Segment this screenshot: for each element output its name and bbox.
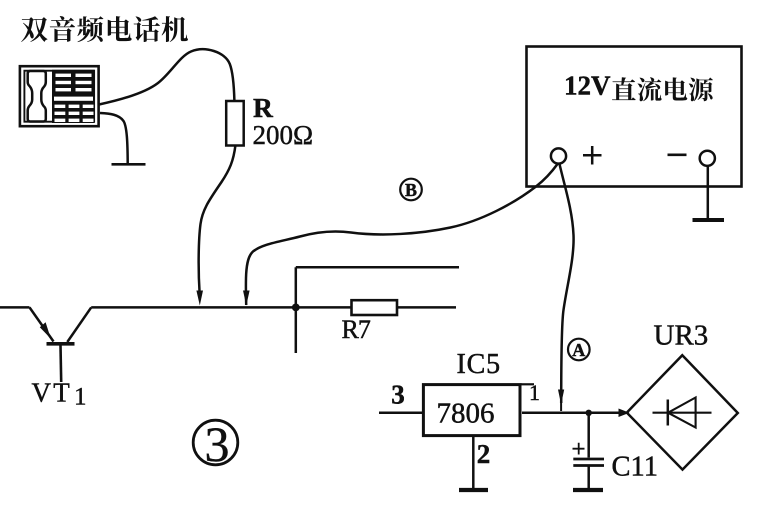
ground (minus terminal) — [693, 218, 725, 222]
IC5 box (7806) — [423, 385, 520, 436]
12V DC power supply box — [527, 47, 742, 187]
transistor VT1 right diagonal — [67, 307, 91, 342]
wire: phone to ground — [100, 113, 128, 164]
junction node at pin1 line — [586, 410, 592, 416]
svg-text:A: A — [572, 340, 585, 360]
svg-text:VT: VT — [32, 378, 72, 408]
svg-text:7806: 7806 — [437, 397, 495, 429]
ground (C11) — [573, 488, 603, 492]
wire: main horizontal line — [91, 306, 456, 309]
arrowhead (wire A) — [558, 390, 564, 405]
minus sign — [668, 154, 687, 157]
wire: pin 2 lead down — [472, 437, 475, 489]
junction node on main line — [292, 304, 300, 312]
ground (telephone) — [112, 163, 146, 166]
label: 直流电源 — [612, 77, 713, 101]
ground (IC5 pin2) — [459, 488, 488, 492]
telephone handset — [28, 71, 46, 122]
wire: upper horizontal line — [296, 266, 459, 269]
capacitor C11 plates — [573, 458, 604, 461]
node label A — [568, 339, 590, 361]
terminal + circle — [551, 148, 566, 163]
pin1 top stub — [521, 383, 534, 385]
svg-text:UR3: UR3 — [654, 320, 709, 352]
label: telephone title 双音频电话机 — [21, 16, 188, 42]
wire: phone to resistor R — [99, 49, 234, 104]
capacitor C11 top lead — [587, 413, 590, 458]
node label B — [400, 179, 422, 201]
wire B: from + terminal to main line — [246, 164, 558, 305]
arrowhead onto main line (wire B) — [243, 291, 250, 306]
resistor R7 — [352, 300, 398, 315]
svg-text:R7: R7 — [342, 315, 371, 344]
wire: vertical stub through junction — [295, 267, 298, 353]
capacitor C11 bottom lead — [587, 466, 590, 489]
svg-text:2: 2 — [477, 439, 491, 469]
diode inside UR3 — [653, 398, 712, 428]
transistor VT1 lead down — [59, 346, 62, 383]
svg-text:200Ω: 200Ω — [253, 120, 314, 150]
wire: main horizontal line left stub — [0, 306, 30, 309]
wire: R down to main line — [199, 146, 236, 294]
svg-text:3: 3 — [391, 380, 405, 410]
figure number ③ — [193, 420, 238, 465]
telephone keypad block — [52, 70, 95, 123]
transistor VT1 base bar — [47, 342, 75, 346]
terminal - circle — [700, 151, 715, 166]
svg-text:12V: 12V — [564, 71, 611, 101]
arrowhead onto main line (from R) — [196, 291, 203, 306]
wire: pin 3 lead — [379, 412, 424, 415]
svg-text:B: B — [405, 180, 417, 200]
plus sign — [583, 146, 602, 165]
arrow blob at diamond left vertex — [619, 409, 630, 418]
wire: pin 1 to junction and UR3 — [522, 412, 627, 415]
wire: minus terminal to ground — [707, 166, 710, 219]
resistor R — [226, 101, 244, 146]
svg-text:1: 1 — [74, 384, 87, 411]
svg-text:IC5: IC5 — [457, 349, 501, 380]
svg-text:C11: C11 — [612, 452, 658, 483]
svg-text:3: 3 — [205, 416, 230, 472]
transistor VT1 left diagonal with arrow — [30, 307, 54, 341]
capacitor C11 polarity plus — [573, 443, 585, 455]
telephone icon body — [20, 66, 99, 126]
svg-text:1: 1 — [529, 380, 540, 405]
wire A: from + terminal down to IC5 pin1 line — [560, 164, 574, 403]
svg-text:R: R — [253, 92, 274, 123]
bridge rectifier UR3 diamond — [627, 355, 738, 469]
